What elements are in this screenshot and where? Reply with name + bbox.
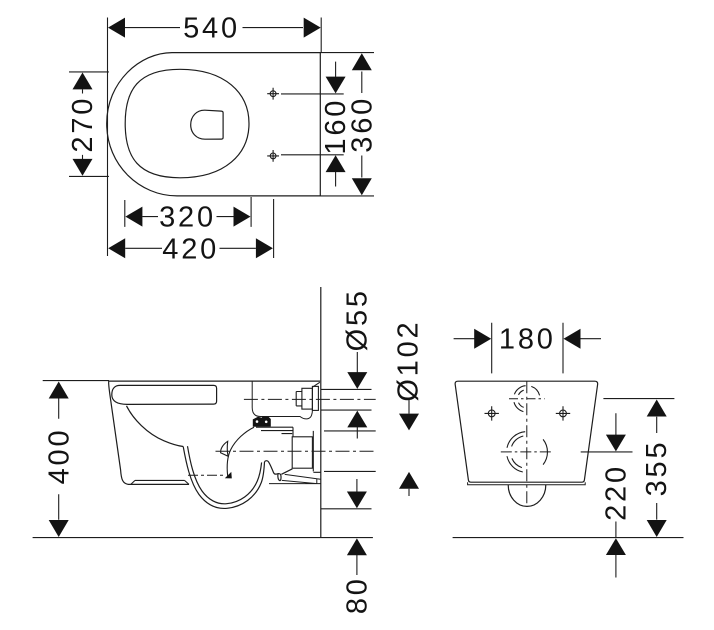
svg-text:Ø102: Ø102 [393, 320, 425, 402]
svg-text:80: 80 [341, 576, 373, 614]
top view drain opening [191, 110, 223, 139]
top view fixing hole upper [267, 88, 279, 100]
rear view fixing hole right [556, 406, 570, 420]
rear view outlet pipe arcs [501, 432, 553, 472]
side view seat lid [112, 385, 217, 404]
rear view outlet semicircle [508, 485, 546, 507]
rear view outline [455, 381, 598, 485]
side view bottom mounting to wall [269, 474, 321, 483]
side view trap U outer [183, 447, 264, 509]
svg-text:180: 180 [499, 324, 556, 356]
top view pan outline [107, 53, 321, 196]
dimension 320 [125, 197, 251, 234]
side view left edge and bottom left [109, 381, 189, 484]
side view bottom plate left [131, 480, 189, 484]
rear view inlet pipe arcs [509, 386, 545, 412]
top view fixing hole lower [267, 150, 279, 162]
side view water jet curve [227, 427, 254, 476]
side view trap U inner [188, 446, 262, 504]
side view flush pipe [256, 427, 293, 437]
side view top edge [109, 380, 321, 382]
side view bowl curve [127, 406, 184, 447]
dimension 355 [603, 399, 674, 537]
trap dash line [188, 472, 232, 479]
floor line side view [33, 537, 373, 539]
dimension 180 [454, 323, 601, 374]
svg-text:220: 220 [600, 464, 632, 521]
svg-text:355: 355 [641, 440, 673, 497]
side view flush tank [252, 381, 312, 419]
svg-text:420: 420 [162, 233, 219, 265]
floor line rear view [453, 537, 684, 539]
dimension 400 [43, 381, 109, 537]
center line outlet [216, 450, 376, 452]
wall line [320, 287, 322, 538]
side view inlet spigot [296, 382, 320, 410]
dimension 160 [281, 62, 352, 187]
side view trap weir [265, 461, 293, 481]
svg-text:540: 540 [183, 13, 240, 45]
dimension D55 [321, 288, 374, 438]
rear view center line [526, 381, 528, 506]
rear view fixing hole left [485, 406, 499, 420]
side view flush valve [253, 416, 271, 427]
dimension 420 [108, 199, 273, 265]
dimension 540 [108, 13, 322, 256]
svg-text:Ø55: Ø55 [341, 288, 373, 351]
svg-text:400: 400 [43, 428, 75, 485]
dimension D102 [324, 320, 425, 496]
dimension 80 [321, 479, 374, 614]
side view outlet box [292, 431, 320, 472]
svg-text:360: 360 [346, 96, 378, 153]
top view bowl rim ellipse [125, 69, 249, 178]
dimension 220 [581, 413, 633, 577]
dimension 360 [320, 53, 378, 196]
dimension 270 [67, 72, 109, 176]
svg-text:320: 320 [159, 202, 216, 234]
side view jet deflector [221, 441, 229, 456]
svg-text:270: 270 [67, 96, 99, 153]
center line inlet [244, 398, 376, 400]
